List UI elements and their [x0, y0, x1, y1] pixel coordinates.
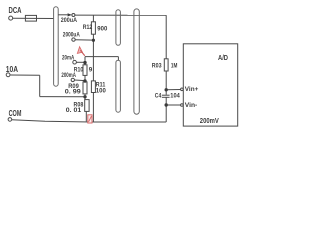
- svg-text:R10: R10: [74, 67, 84, 74]
- svg-text:COM: COM: [9, 109, 22, 118]
- svg-text:1M: 1M: [171, 62, 178, 69]
- svg-text:A/D: A/D: [218, 55, 228, 62]
- svg-text:100: 100: [96, 87, 106, 94]
- svg-text:R12: R12: [83, 24, 93, 31]
- svg-text:C4: C4: [155, 93, 162, 100]
- svg-text:2000uA: 2000uA: [63, 31, 80, 38]
- svg-text:Vin-: Vin-: [185, 102, 198, 109]
- svg-text:900: 900: [97, 25, 107, 32]
- svg-text:0. 99: 0. 99: [65, 89, 82, 96]
- svg-text:10A: 10A: [6, 65, 18, 74]
- svg-text:200uA: 200uA: [61, 17, 78, 24]
- svg-text:200mV: 200mV: [200, 118, 219, 125]
- svg-text:104: 104: [170, 93, 180, 100]
- svg-text:Vin+: Vin+: [185, 86, 199, 93]
- svg-text:9: 9: [89, 67, 93, 74]
- svg-text:DCA: DCA: [9, 6, 22, 15]
- svg-text:20mA: 20mA: [62, 54, 75, 61]
- svg-text:R03: R03: [152, 62, 162, 69]
- svg-text:0. 01: 0. 01: [66, 107, 82, 114]
